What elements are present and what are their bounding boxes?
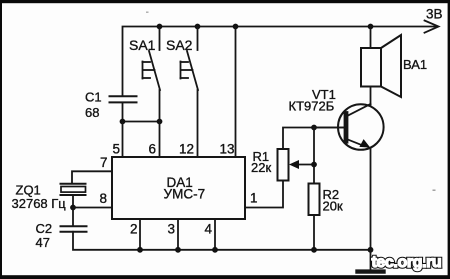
op-amp U1: IC DA1 box [112,157,245,219]
scan speck top [146,12,149,13]
junction base-R2 [311,125,317,131]
junction rail SA2 [195,24,201,30]
wire SA1 to pin 6 [159,90,161,157]
transistor VT1 label [289,87,336,114]
pin 12 label [179,142,194,157]
svg-text:6: 6 [149,142,157,157]
junction C1-SA1 node left [120,119,126,125]
capacitor C2 [61,226,87,232]
junction R2 rail [311,247,317,253]
svg-text:22к: 22к [251,160,271,175]
svg-text:2: 2 [130,222,138,237]
pin 6 label [149,142,157,157]
net 3V arrow [425,21,439,33]
wire pin 4 [214,220,216,250]
IC DA1 label [164,175,206,202]
svg-text:47: 47 [36,235,50,250]
watermark tec.org.ru [372,254,442,271]
switch SA1 [143,27,161,91]
svg-text:3: 3 [168,222,176,237]
svg-text:КТ972Б: КТ972Б [289,99,335,114]
svg-text:68: 68 [85,105,99,120]
pin 7 label [100,155,108,170]
junction emitter rail [368,247,374,253]
svg-text:ВА1: ВА1 [403,57,427,72]
svg-text:4: 4 [205,222,213,237]
switch SA2 label [166,37,193,53]
crystal ZQ1 label [12,183,67,212]
junction ZQ1-C2-pin8 [70,205,76,211]
speaker BA1 [361,35,401,97]
pin 8 label [100,191,108,206]
svg-text:20к: 20к [323,199,343,214]
wire base [314,127,345,129]
wire C1 bottom lead [123,102,160,121]
transistor Q1 VT1 [338,104,384,150]
svg-text:12: 12 [179,142,194,157]
wire R1 top to base [283,128,345,150]
capacitor C1 label [85,90,102,121]
resistor R1 wiper arrow [289,160,314,169]
resistor R1 label [251,149,271,175]
wire ZQ1 bottom lead [72,195,74,208]
svg-text:7: 7 [100,155,108,170]
pin 5 label [113,142,121,157]
junction rail pin13 [233,24,239,30]
svg-text:SA1: SA1 [129,37,156,53]
wire emitter down [370,149,372,250]
scan speck right [433,190,436,191]
resistor R2 [309,184,320,216]
wire R2 branch vertical [313,128,315,184]
crystal ZQ1 [61,184,86,195]
pin 4 label [205,222,213,237]
wire +3V top rail [123,27,437,96]
pin 13 label [220,142,235,157]
wire pin 2 [139,220,141,250]
svg-text:tec.org.ru: tec.org.ru [372,254,442,271]
capacitor C2 label [36,221,53,250]
wire pin 5 [122,122,124,158]
junction pin4 rail [212,247,218,253]
wire SA2 to pin 12 [197,90,199,157]
junction pin2 rail [137,247,143,253]
wire C2 top lead [72,208,74,227]
speaker BA1 label [403,57,427,72]
junction rail speaker [368,24,374,30]
svg-text:5: 5 [113,142,121,157]
resistor R1 (trimmer) [278,149,289,181]
wire pin 13 riser [235,27,237,158]
switch SA1 label [129,37,156,53]
wire pin 8 [73,207,112,209]
pin 2 label [130,222,138,237]
capacitor C1 [110,96,137,102]
wire C2 bottom lead and ground rail [73,232,371,250]
junction rail SA1 [157,24,163,30]
wire pin 7 [72,171,112,183]
svg-text:32768 Гц: 32768 Гц [12,196,67,211]
junction C1-SA1 node right [157,119,163,125]
pin 3 label [168,222,176,237]
ground [358,250,384,272]
svg-text:C2: C2 [36,221,53,236]
wire speaker top lead [370,27,372,49]
svg-text:3В: 3В [426,7,443,22]
wire R2 bottom lead [313,215,315,250]
svg-text:C1: C1 [85,90,102,105]
wire pin 3 [177,220,179,250]
wire pin 1 to R1 bottom [245,181,283,208]
wire collector riser [370,87,372,107]
pin 1 label [250,191,258,206]
svg-text:1: 1 [250,191,258,206]
svg-text:SA2: SA2 [166,37,193,53]
switch SA2 [181,27,199,91]
svg-text:УМС-7: УМС-7 [164,187,206,202]
junction pin3 rail [175,247,181,253]
resistor R2 label [323,187,343,214]
svg-text:8: 8 [100,191,108,206]
svg-text:13: 13 [220,142,235,157]
junction wiper-R2 [311,162,317,168]
net 3V label [426,7,443,22]
